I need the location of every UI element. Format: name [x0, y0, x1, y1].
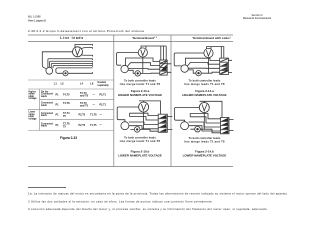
wire T3 [51, 64, 92, 68]
svg-text:Figura 2-33: Figura 2-33 [60, 136, 77, 140]
sub-table top rule [28, 79, 114, 81]
wire T2 step [129, 122, 158, 125]
wire stator loop [175, 108, 200, 122]
svg-text:and T5: and T5 [80, 105, 89, 108]
motor lead down [142, 57, 144, 73]
wire T3 step [189, 126, 221, 131]
link straps TB1 [160, 61, 166, 75]
svg-text:HIGHER NAMEPLATE VOLTAGE: HIGHER NAMEPLATE VOLTAGE [118, 93, 162, 97]
motor M1 [73, 47, 83, 57]
table header bottom rule [28, 40, 233, 42]
svg-text:P1: P1 [56, 103, 60, 106]
wire stubs to lines [229, 120, 234, 131]
svg-text:L1: L1 [54, 82, 58, 86]
link straps TB2 [159, 115, 166, 118]
wire T2 loop [188, 67, 219, 69]
wire into terminal board top [158, 46, 167, 60]
svg-text:T5: T5 [63, 125, 67, 128]
motor M2 [138, 48, 147, 57]
motor M4 [204, 48, 213, 57]
svg-text:LOWER NAMEPLATE VOLTAGE: LOWER NAMEPLATE VOLTAGE [118, 153, 162, 157]
svg-text:—: — [100, 124, 103, 127]
svg-text:1a. La intención de marcas del: 1a. La intención de marcas del motor es … [28, 191, 288, 195]
svg-text:P2,T1: P2,T1 [99, 93, 106, 96]
svg-text:leads: leads [41, 115, 48, 117]
svg-text:MIL 1-1998: MIL 1-1998 [28, 16, 41, 19]
svg-text:Terminal Board¹ ²: Terminal Board¹ ² [132, 36, 157, 40]
svg-text:P2,T5: P2,T5 [79, 114, 86, 117]
svg-text:L8: L8 [90, 82, 94, 86]
wire stubs to lines [167, 117, 172, 130]
svg-text:leads: leads [41, 105, 48, 107]
wire T8 [53, 66, 93, 68]
thermal protector P [63, 71, 68, 76]
wire T1 [128, 70, 135, 73]
motor M5 [199, 103, 209, 113]
wire T5 loop [127, 63, 160, 67]
svg-text:P1: P1 [56, 114, 60, 117]
wire L1 lead [75, 45, 93, 48]
link straps TB4 [221, 118, 228, 121]
svg-text:T1,T5: T1,T5 [90, 124, 97, 127]
wire T5 loop [187, 62, 220, 66]
wire T5 step [190, 117, 220, 123]
wire T4 step [130, 113, 159, 116]
wire line lead top [139, 101, 161, 114]
svg-text:line merge leads T1 and T8: line merge leads T1 and T8 [184, 140, 225, 144]
wire T8 to board [190, 129, 220, 133]
svg-text:—: — [93, 93, 96, 96]
terminal circle P2 [121, 122, 129, 130]
svg-text:T4,T8: T4,T8 [63, 102, 70, 105]
wire stubs to lines [167, 64, 171, 73]
wire T8 to board [140, 72, 159, 74]
svg-text:P2,T1: P2,T1 [99, 103, 106, 106]
terminal board TB4 [221, 117, 230, 133]
motor M3 [139, 102, 149, 112]
sub-table row rules [40, 98, 114, 100]
svg-text:T1,T8: T1,T8 [90, 114, 97, 117]
wire line lead top [141, 46, 158, 48]
svg-text:L2: L2 [61, 82, 65, 86]
svg-text:Manual de funcionamiento: Manual de funcionamiento [243, 17, 272, 20]
svg-text:line merge leads T1 and T8: line merge leads T1 and T8 [120, 82, 161, 86]
wire stator loop [174, 53, 204, 66]
svg-text:Terminal Board with Links¹: Terminal Board with Links¹ [192, 36, 230, 40]
svg-text:—: — [93, 103, 96, 106]
svg-text:To both controller leads: To both controller leads [124, 136, 156, 140]
motor lead down [143, 112, 145, 129]
wire T4 loop [126, 58, 160, 65]
svg-text:To both controller leads: To both controller leads [189, 79, 221, 83]
svg-text:line merge leads T1 and T8: line merge leads T1 and T8 [184, 82, 225, 86]
svg-text:L4: L4 [80, 82, 84, 86]
wire T5 step [130, 117, 159, 121]
svg-text:T4,T5: T4,T5 [63, 93, 70, 96]
wire T1 [188, 70, 196, 73]
wire T4 step [190, 113, 220, 118]
footnote rule [28, 187, 66, 189]
column separator 1 [113, 35, 115, 167]
svg-text:3 conexión adecuada depende de: 3 conexión adecuada depende del diseño d… [28, 207, 268, 211]
svg-text:Line leads: Line leads [60, 36, 84, 40]
terminal board TB2 [158, 114, 167, 132]
svg-text:Parte 2, página 18: Parte 2, página 18 [28, 19, 46, 22]
wire T2 step [189, 122, 221, 127]
wire T8 to board [131, 129, 159, 131]
svg-text:To both controller leads: To both controller leads [124, 79, 156, 83]
wire T4 [48, 59, 93, 68]
wire T8 to board [201, 72, 220, 73]
wire stator loop [117, 107, 138, 122]
wire T2 [50, 61, 93, 67]
wire T1 upper [56, 68, 93, 71]
svg-text:voltage: voltage [29, 117, 38, 120]
svg-text:P1: P1 [56, 124, 60, 127]
svg-text:separately: separately [97, 84, 109, 87]
svg-text:line merge leads T1 and T8: line merge leads T1 and T8 [120, 139, 161, 143]
svg-text:LOWER NAMEPLATE VOLTAGE: LOWER NAMEPLATE VOLTAGE [183, 153, 227, 157]
wire stubs to lines [228, 60, 232, 72]
svg-text:voltage: voltage [29, 97, 38, 100]
sub-table label column rule [39, 89, 41, 131]
thermal protector P [196, 71, 201, 76]
terminal circle P2 [121, 65, 128, 72]
link straps TB3 [220, 59, 227, 74]
thermal protector P [195, 126, 201, 132]
svg-text:Insulate: Insulate [97, 81, 106, 84]
terminal board TB3 [220, 58, 229, 74]
svg-text:2 Utilice las dos unidades si: 2 Utilice las dos unidades si la atenció… [28, 199, 213, 203]
wire T5 lead [81, 55, 93, 57]
wire left loop to terminal [42, 52, 72, 69]
thermal protector P [134, 127, 140, 133]
column separator 2 [170, 35, 172, 167]
svg-text:P2,T3: P2,T3 [79, 124, 86, 127]
wire stator loop [117, 53, 139, 66]
svg-text:HIGHER NAMEPLATE VOLTAGE: HIGHER NAMEPLATE VOLTAGE [182, 93, 226, 97]
svg-text:T5: T5 [63, 115, 67, 118]
wire line lead top [200, 101, 223, 117]
motor lead down [203, 113, 205, 130]
terminal circle P1 [46, 67, 53, 74]
wire line lead top [207, 47, 222, 59]
terminal board TB1 [160, 60, 167, 75]
svg-text:and T8: and T8 [80, 95, 89, 98]
table bottom rule [28, 166, 233, 168]
wire T3 step [129, 126, 158, 129]
terminal circle P2 [181, 122, 189, 130]
wire T2 loop [128, 68, 160, 71]
wire T1 lower with protector [56, 71, 93, 74]
wire into board top [221, 47, 224, 59]
terminal circle P2 [181, 65, 188, 72]
svg-text:leads: leads [41, 126, 48, 128]
wire L2 lead [81, 48, 92, 49]
wire T4 loop [186, 58, 220, 65]
table top rule [28, 34, 233, 36]
thermal protector P [135, 71, 140, 76]
svg-text:leads: leads [41, 96, 48, 98]
svg-text:2.48.2.2.2 Grupo h-dataelement: 2.48.2.2.2 Grupo h-dataelement con el té… [28, 29, 144, 33]
motor lead down [208, 58, 210, 74]
svg-text:—: — [100, 113, 103, 116]
svg-text:P1: P1 [56, 93, 60, 96]
